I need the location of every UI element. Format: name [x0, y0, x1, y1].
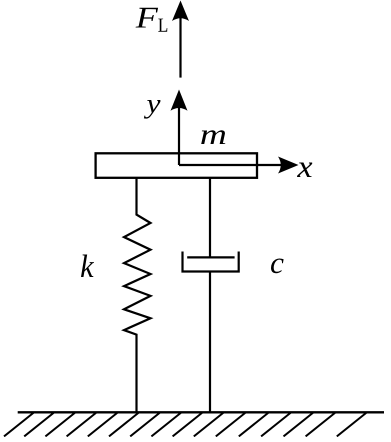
damper rod upper — [209, 178, 211, 257]
spring k — [124, 178, 151, 412]
subscript L — [158, 19, 167, 32]
damper piston plate — [187, 256, 234, 258]
label y — [144, 100, 161, 119]
damper cylinder cup — [183, 252, 239, 272]
ground hatching — [4, 412, 367, 436]
force arrow F_L — [172, 1, 189, 78]
label c — [271, 258, 284, 273]
damper c — [183, 178, 239, 412]
letter F — [136, 8, 158, 28]
y-axis arrow — [171, 90, 188, 166]
label x — [297, 162, 312, 177]
damper rod lower — [209, 272, 211, 413]
ground line — [18, 411, 384, 413]
label k — [81, 255, 94, 277]
label m — [201, 130, 225, 144]
x-axis arrow — [179, 157, 299, 174]
mass m rectangle — [96, 153, 257, 178]
label F_L — [136, 8, 168, 32]
